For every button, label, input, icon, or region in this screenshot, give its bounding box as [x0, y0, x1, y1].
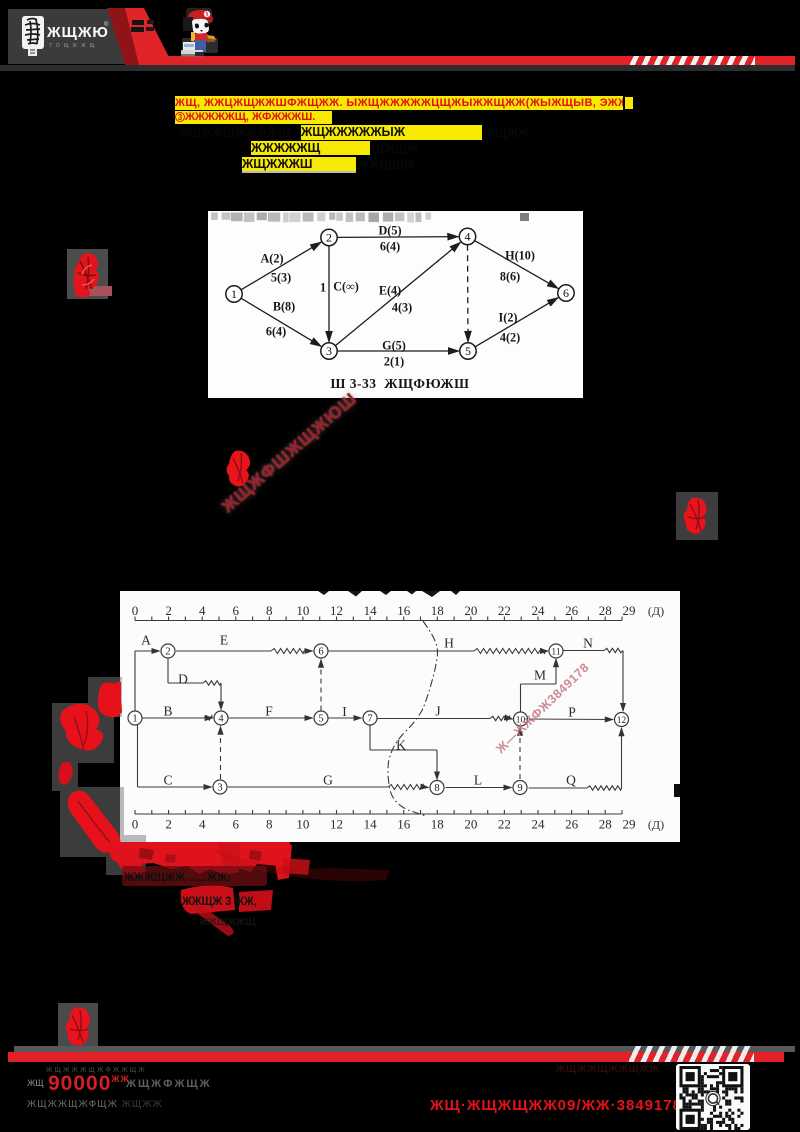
svg-text:C(∞): C(∞)	[333, 280, 359, 294]
dummy arrow 3 to 4 dashed	[220, 727, 222, 780]
node 1	[226, 286, 242, 302]
svg-text:24: 24	[532, 817, 546, 832]
svg-text:14: 14	[364, 817, 378, 832]
svg-text:4(2): 4(2)	[500, 331, 520, 345]
bottom left red blob	[58, 1003, 98, 1049]
yellow highlight line 4	[251, 141, 370, 155]
red mess below figure 2	[100, 838, 460, 938]
activity C	[137, 725, 139, 788]
node 2	[161, 644, 175, 658]
svg-text:6: 6	[318, 647, 323, 658]
node 1	[128, 711, 142, 725]
svg-text:3: 3	[217, 783, 222, 794]
svg-text:10: 10	[296, 817, 309, 832]
svg-text:16: 16	[397, 817, 411, 832]
faint dark red text left of qr	[556, 1064, 660, 1075]
activity A	[134, 651, 136, 711]
svg-text:H: H	[444, 636, 454, 651]
header logo panel	[8, 9, 142, 64]
logo seal square	[22, 16, 44, 49]
svg-text:6(4): 6(4)	[266, 325, 286, 339]
svg-text:10: 10	[296, 603, 309, 618]
svg-text:22: 22	[498, 817, 511, 832]
svg-text:Ш 3-33 ЖЩФЮЖШ: Ш 3-33 ЖЩФЮЖШ	[331, 376, 470, 391]
red ribbon	[100, 8, 180, 65]
svg-text:29: 29	[623, 817, 636, 832]
svg-text:5: 5	[318, 714, 323, 725]
svg-text:G(5): G(5)	[382, 339, 406, 353]
activity H with float wave	[329, 650, 475, 652]
activity P	[529, 718, 614, 721]
svg-text:28: 28	[599, 603, 612, 618]
node 5	[460, 343, 476, 359]
black title char 二 on ribbon	[132, 20, 144, 25]
node 10	[514, 712, 528, 726]
activity H arrow 4-6	[475, 241, 558, 289]
svg-text:4: 4	[218, 714, 224, 725]
red seal blob left	[67, 249, 108, 299]
activity M	[520, 684, 522, 712]
activity L	[446, 787, 512, 789]
activity E arrow 3-4	[335, 242, 460, 345]
svg-text:12: 12	[617, 716, 627, 726]
node 11	[549, 644, 563, 658]
black text line 1 below fig2	[124, 870, 231, 884]
activity I	[329, 717, 362, 719]
activity D with float wave	[167, 659, 169, 684]
svg-text:F: F	[265, 704, 273, 719]
svg-text:4: 4	[199, 817, 206, 832]
svg-text:N: N	[583, 636, 593, 651]
bright red blob on watermark	[224, 448, 256, 490]
svg-text:29: 29	[623, 603, 636, 618]
dark prefix line 3	[178, 126, 291, 140]
svg-text:28: 28	[599, 817, 612, 832]
svg-text:8: 8	[266, 603, 273, 618]
dummy arrow 4-5	[467, 245, 470, 342]
footer price 90000	[27, 1078, 44, 1088]
activity K	[369, 726, 371, 751]
actual progress front line dash-dot	[388, 621, 438, 816]
yellow highlight line 2	[175, 111, 332, 124]
svg-text:4: 4	[199, 603, 206, 618]
svg-text:H(10): H(10)	[505, 249, 535, 263]
timeline scale	[135, 620, 622, 622]
timeline scale	[135, 813, 622, 815]
svg-text:24: 24	[532, 603, 546, 618]
node 12	[615, 713, 629, 727]
svg-text:8: 8	[434, 783, 439, 794]
svg-text:2(1): 2(1)	[384, 355, 404, 369]
dummy arrow 5 to 6 dashed	[320, 660, 322, 711]
svg-text:6: 6	[563, 286, 569, 300]
activity F	[229, 717, 313, 719]
svg-text:B: B	[163, 704, 172, 719]
top edge dark marks	[318, 591, 460, 597]
svg-text:6: 6	[233, 603, 240, 618]
svg-text:D(5): D(5)	[378, 224, 401, 238]
svg-text:8(6): 8(6)	[500, 270, 520, 284]
svg-text:C: C	[163, 773, 172, 788]
svg-text:E: E	[220, 633, 228, 648]
svg-text:(Д): (Д)	[648, 818, 664, 832]
logo text 佑森教育	[47, 24, 109, 41]
svg-text:12: 12	[330, 603, 343, 618]
yellow highlight line 1	[175, 96, 623, 110]
svg-text:5(3): 5(3)	[271, 271, 291, 285]
svg-text:18: 18	[431, 603, 444, 618]
svg-text:B(8): B(8)	[273, 300, 295, 314]
node 7	[363, 711, 377, 725]
svg-text:14: 14	[364, 603, 378, 618]
svg-text:3: 3	[326, 344, 332, 358]
header gray strip under red bar	[0, 65, 795, 71]
footer hazard stripes	[629, 1046, 754, 1062]
activity A arrow 1-2	[241, 242, 321, 290]
svg-text:7: 7	[367, 714, 372, 725]
diagonal red watermark between figures	[190, 390, 395, 520]
svg-text:8: 8	[266, 817, 273, 832]
activity E with float wave	[176, 650, 271, 652]
svg-text:11: 11	[551, 648, 560, 658]
svg-text:G: G	[323, 773, 333, 788]
figure 1 white panel	[208, 211, 583, 398]
svg-text:26: 26	[565, 817, 579, 832]
svg-text:2: 2	[165, 603, 172, 618]
node 3	[321, 343, 337, 359]
activity B with float wave	[143, 717, 205, 719]
node 5	[314, 711, 328, 725]
redacted smudge line	[211, 213, 529, 223]
svg-text:2: 2	[165, 647, 170, 658]
svg-text:J: J	[435, 704, 440, 719]
top hazard stripes	[627, 56, 755, 65]
svg-text:22: 22	[498, 603, 511, 618]
red seal blob right	[676, 492, 718, 540]
svg-text:26: 26	[565, 603, 579, 618]
svg-text:E(4): E(4)	[379, 284, 401, 298]
svg-text:12: 12	[330, 817, 343, 832]
node 8	[430, 781, 444, 795]
node 6	[314, 644, 328, 658]
svg-text:1: 1	[320, 281, 326, 295]
svg-text:4(3): 4(3)	[392, 301, 412, 315]
svg-text:2: 2	[165, 817, 172, 832]
activity I arrow 5-6	[475, 298, 558, 347]
activity J with float wave	[378, 718, 491, 720]
footer red bar	[8, 1052, 784, 1062]
svg-text:16: 16	[397, 603, 411, 618]
top red bar	[140, 56, 795, 65]
svg-text:I(2): I(2)	[499, 311, 518, 325]
black text line 2 below fig2	[182, 894, 257, 908]
node 4	[214, 711, 228, 725]
svg-text:K: K	[396, 738, 406, 753]
svg-text:P: P	[568, 705, 576, 720]
svg-text:I: I	[342, 704, 347, 719]
activity Q with float wave	[529, 787, 588, 789]
footer red contact text	[430, 1097, 682, 1114]
svg-text:6: 6	[233, 817, 240, 832]
svg-text:20: 20	[464, 817, 477, 832]
svg-text:A(2): A(2)	[260, 252, 283, 266]
svg-text:5: 5	[465, 344, 471, 358]
svg-text:Q: Q	[566, 773, 576, 788]
svg-text:(Д): (Д)	[648, 604, 664, 618]
svg-text:D: D	[178, 672, 188, 687]
node 6	[558, 285, 574, 301]
svg-text:1: 1	[231, 287, 237, 301]
svg-text:0: 0	[132, 603, 139, 618]
activity D arrow 2-4	[337, 236, 458, 239]
svg-text:M: M	[534, 668, 546, 683]
figure 2 white panel	[120, 591, 680, 842]
activity C arrow 2-3	[328, 246, 330, 342]
activity B arrow 1-3	[241, 298, 321, 346]
node 2	[321, 229, 337, 245]
node 3	[213, 780, 227, 794]
svg-text:18: 18	[431, 817, 444, 832]
svg-text:2: 2	[326, 231, 332, 245]
panda mascot	[180, 6, 224, 58]
left edge red blobs	[50, 675, 150, 875]
qr code	[676, 1064, 750, 1130]
node 9	[513, 781, 527, 795]
svg-text:6(4): 6(4)	[380, 240, 400, 254]
right edge black glyph	[674, 784, 680, 797]
activity G arrow 3-5	[337, 350, 459, 352]
yellow highlight line 5	[242, 157, 356, 171]
node 4	[459, 228, 475, 244]
svg-text:L: L	[474, 773, 482, 788]
svg-text:4: 4	[465, 230, 471, 244]
activity N with float wave	[564, 650, 605, 652]
svg-text:20: 20	[464, 603, 477, 618]
dummy arrow 9 to 10 dashed	[519, 728, 521, 780]
yellow highlight line 3	[301, 125, 482, 140]
faint row above price	[46, 1067, 147, 1074]
dark red wash behind text line 1	[122, 866, 267, 886]
footer gray strip	[14, 1046, 795, 1052]
svg-text:9: 9	[517, 783, 522, 794]
svg-text:A: A	[141, 633, 151, 648]
activity G with float wave	[228, 786, 388, 788]
logo subtitle	[49, 43, 98, 49]
